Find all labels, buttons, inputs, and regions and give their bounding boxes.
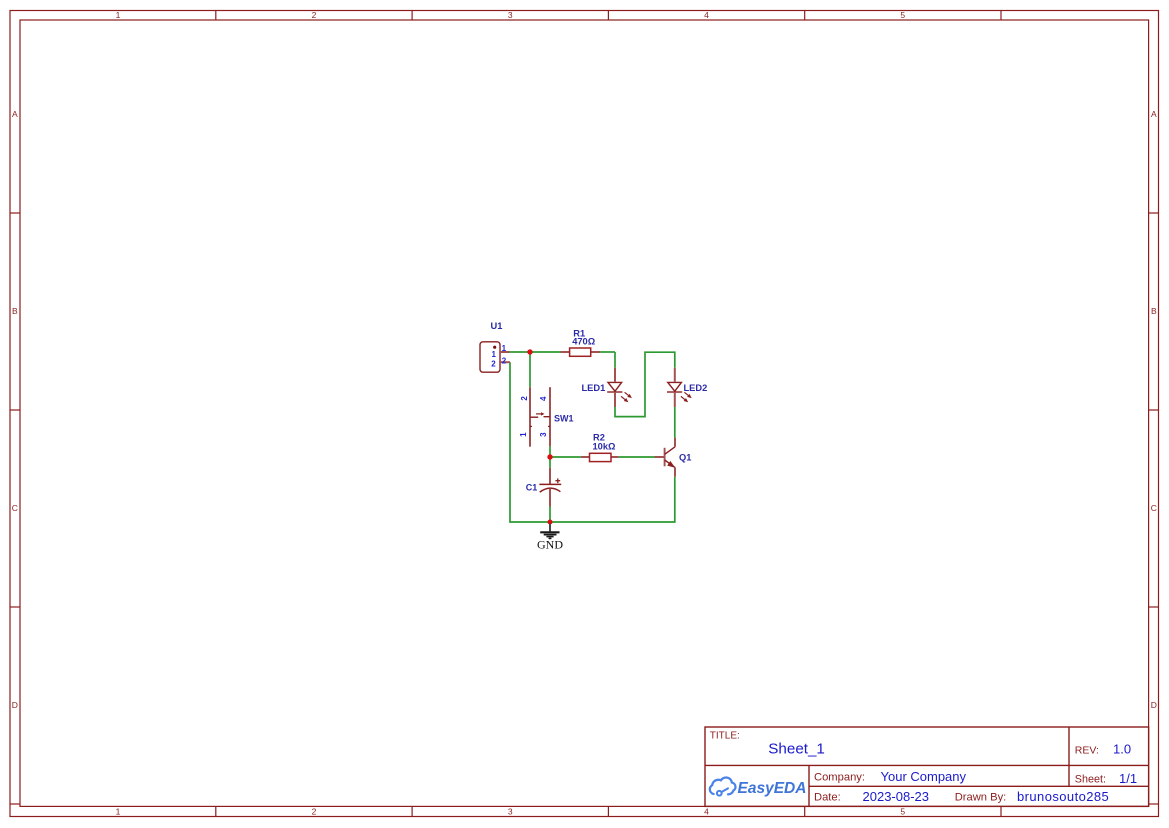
svg-text:Date:: Date: bbox=[814, 791, 841, 803]
junction node A (530,352) bbox=[527, 349, 532, 354]
svg-text:2: 2 bbox=[491, 359, 496, 368]
svg-text:B: B bbox=[12, 306, 18, 316]
svg-text:1: 1 bbox=[116, 806, 121, 816]
svg-text:2: 2 bbox=[312, 10, 317, 20]
svg-text:5: 5 bbox=[900, 806, 905, 816]
title block labels bbox=[710, 730, 1106, 803]
title block bbox=[705, 727, 1149, 806]
svg-text:EasyEDA: EasyEDA bbox=[738, 780, 807, 797]
wire node B to C1 bbox=[549, 457, 551, 468]
resistor R2 bbox=[581, 453, 619, 461]
svg-text:LED2: LED2 bbox=[684, 383, 708, 393]
svg-text:LED1: LED1 bbox=[582, 383, 606, 393]
svg-text:Q1: Q1 bbox=[679, 452, 691, 462]
svg-text:1: 1 bbox=[116, 10, 121, 20]
LED LED2 bbox=[667, 368, 692, 407]
wire C1 to GND node bbox=[549, 507, 551, 523]
svg-text:C1: C1 bbox=[526, 483, 538, 493]
svg-text:A: A bbox=[12, 109, 18, 119]
wire SW1 pin3 to node B bbox=[549, 446, 551, 457]
svg-text:2023-08-23: 2023-08-23 bbox=[863, 789, 930, 804]
svg-text:D: D bbox=[1151, 700, 1157, 710]
svg-text:B: B bbox=[1151, 306, 1157, 316]
svg-text:U1: U1 bbox=[491, 321, 503, 331]
junction node B (550,457) bbox=[547, 454, 552, 459]
svg-text:3: 3 bbox=[508, 10, 513, 20]
junction node GND (550,522) bbox=[548, 520, 553, 525]
svg-text:1: 1 bbox=[492, 350, 497, 359]
wire Q1 emitter to bottom bbox=[674, 477, 676, 523]
svg-text:C: C bbox=[12, 503, 18, 513]
svg-text:4: 4 bbox=[704, 806, 709, 816]
resistor R1 bbox=[560, 348, 600, 356]
svg-text:1: 1 bbox=[519, 432, 528, 437]
svg-text:3: 3 bbox=[539, 432, 548, 437]
svg-text:2: 2 bbox=[520, 396, 529, 401]
wire LED1 cathode to LED2 anode bbox=[615, 352, 675, 416]
svg-text:C: C bbox=[1151, 503, 1157, 513]
title block values bbox=[768, 740, 1137, 803]
svg-text:10kΩ: 10kΩ bbox=[593, 442, 617, 452]
svg-text:1/1: 1/1 bbox=[1119, 771, 1137, 786]
svg-text:1.0: 1.0 bbox=[1113, 742, 1131, 757]
svg-text:REV:: REV: bbox=[1075, 744, 1099, 756]
switch SW1 bbox=[530, 387, 550, 447]
svg-text:2: 2 bbox=[312, 806, 317, 816]
wire node B to R2 bbox=[550, 456, 581, 458]
wire U1 pin2 to bottom bbox=[510, 362, 675, 522]
wire LED2 to Q1 collector bbox=[674, 407, 676, 438]
svg-text:Drawn By:: Drawn By: bbox=[955, 791, 1007, 803]
svg-text:Sheet:: Sheet: bbox=[1075, 774, 1106, 786]
svg-text:4: 4 bbox=[539, 396, 548, 401]
svg-text:4: 4 bbox=[704, 10, 709, 20]
svg-text:Company:: Company: bbox=[814, 771, 865, 783]
svg-text:Sheet_1: Sheet_1 bbox=[768, 740, 825, 757]
EasyEDA logo bbox=[710, 777, 807, 797]
svg-text:Your Company: Your Company bbox=[881, 769, 967, 784]
wire R2 to Q1 base bbox=[619, 456, 657, 458]
ground GND bbox=[540, 524, 559, 540]
svg-text:470Ω: 470Ω bbox=[572, 337, 596, 347]
transistor Q1 bbox=[655, 438, 676, 477]
svg-text:D: D bbox=[12, 700, 18, 710]
svg-text:brunosouto285: brunosouto285 bbox=[1017, 789, 1109, 804]
LED LED1 bbox=[607, 368, 632, 407]
capacitor C1 bbox=[539, 468, 561, 507]
svg-text:2: 2 bbox=[502, 357, 507, 366]
wire net VCC top bbox=[510, 352, 616, 387]
connector U1 bbox=[480, 342, 510, 372]
svg-text:GND: GND bbox=[537, 537, 563, 551]
svg-text:5: 5 bbox=[900, 10, 905, 20]
svg-text:A: A bbox=[1151, 109, 1157, 119]
svg-text:1: 1 bbox=[502, 344, 507, 353]
svg-text:3: 3 bbox=[508, 806, 513, 816]
svg-text:TITLE:: TITLE: bbox=[710, 730, 740, 741]
svg-text:SW1: SW1 bbox=[554, 413, 574, 423]
